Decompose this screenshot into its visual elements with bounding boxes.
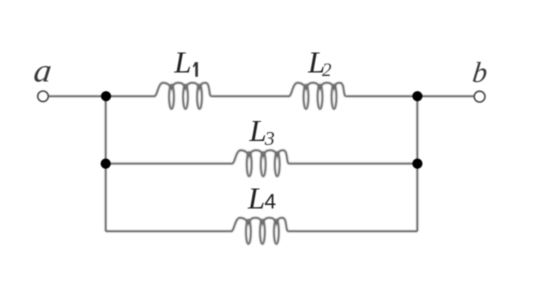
node left middle junction xyxy=(101,159,111,169)
node right top junction xyxy=(412,91,422,101)
inductor L2 coil xyxy=(289,83,346,109)
halo wire L1 to L2 xyxy=(211,94,289,97)
svg-text:L: L xyxy=(247,181,265,216)
halo wire left top node to L1 xyxy=(106,94,155,97)
halo inductor L3 coil xyxy=(232,150,289,176)
halo wire bottom right segment xyxy=(288,229,417,232)
wire a to left top node xyxy=(49,95,103,97)
wire left top node to L1 xyxy=(106,95,155,97)
svg-text:4: 4 xyxy=(264,190,276,213)
svg-text:2: 2 xyxy=(322,60,332,81)
halo wire middle left to L3 xyxy=(106,162,233,165)
wire bottom right segment xyxy=(288,230,417,232)
halo wire right vertical xyxy=(416,96,419,231)
wire L1 to L2 xyxy=(211,95,289,97)
wire middle left to L3 xyxy=(106,163,233,165)
svg-text:L: L xyxy=(173,44,191,79)
wire L3 to right middle node xyxy=(289,163,417,165)
halo wire right top node to b xyxy=(417,94,475,97)
svg-text:3: 3 xyxy=(264,128,275,150)
halo wire L2 to right top node xyxy=(346,94,420,97)
halo wire a to left top node xyxy=(49,94,103,97)
halo wire L3 to right middle node xyxy=(289,162,417,165)
inductor L1 coil xyxy=(155,83,212,109)
node right middle junction xyxy=(412,159,422,169)
node left top junction xyxy=(101,91,111,101)
wire left vertical xyxy=(105,96,107,231)
wire right top node to b xyxy=(417,95,475,97)
wire bottom left segment xyxy=(106,230,232,232)
halo inductor L1 coil xyxy=(155,83,212,109)
halo wire bottom left segment xyxy=(106,229,232,232)
terminal a xyxy=(38,91,49,102)
inductor L4 coil xyxy=(231,218,288,244)
wire right vertical xyxy=(416,96,418,231)
label L1 subscript 1 xyxy=(193,62,198,77)
halo inductor L4 coil xyxy=(231,218,288,244)
inductor L3 coil xyxy=(232,150,289,176)
terminal b xyxy=(474,91,485,102)
halo inductor L2 coil xyxy=(289,83,346,109)
halo wire left vertical xyxy=(104,96,107,231)
wire L2 to right top node xyxy=(346,95,420,97)
